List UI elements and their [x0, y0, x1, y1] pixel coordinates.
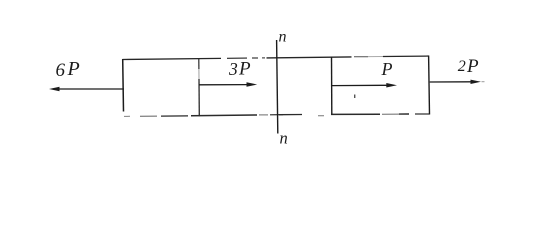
bar bottom edge	[124, 114, 430, 116]
svg-text:P: P	[381, 59, 393, 79]
section line n-n	[277, 40, 278, 134]
stray tick mark	[354, 95, 355, 99]
svg-text:6: 6	[56, 60, 66, 81]
force arrow 6P	[49, 87, 124, 91]
svg-text:3: 3	[228, 59, 238, 79]
force arrow P	[332, 83, 397, 88]
faint smudge after 2P arrowhead	[482, 81, 485, 83]
svg-text:n: n	[280, 129, 288, 148]
svg-text:2: 2	[458, 58, 466, 75]
segment boundary at P	[331, 57, 333, 115]
label 3P	[228, 58, 251, 79]
bar right edge	[428, 56, 431, 115]
bar top edge	[123, 56, 429, 60]
segment boundary at 3P	[198, 59, 201, 116]
bar left edge	[122, 59, 125, 112]
force arrow 3P	[199, 82, 257, 87]
svg-text:P: P	[67, 58, 80, 80]
label 2P	[458, 56, 479, 77]
svg-text:P: P	[238, 58, 251, 79]
force arrow 2P	[430, 80, 481, 84]
label 6P	[56, 58, 80, 81]
svg-text:n: n	[279, 29, 287, 46]
svg-text:P: P	[466, 56, 479, 77]
